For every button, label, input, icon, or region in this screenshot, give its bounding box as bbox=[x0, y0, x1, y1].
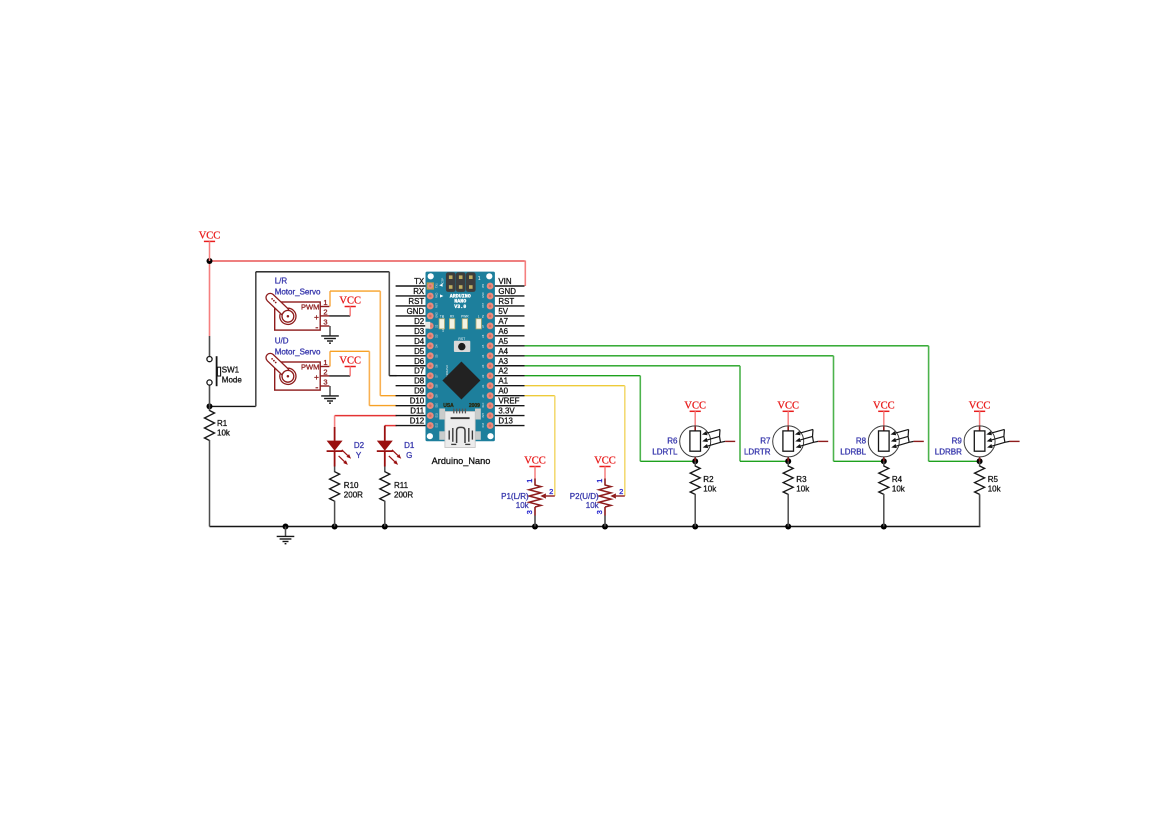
pin A6 (right) bbox=[495, 335, 525, 337]
potentiometer P1(L/R) 10k bbox=[501, 479, 555, 527]
wire D12 to LED D1 bbox=[385, 425, 397, 427]
svg-text:VCC: VCC bbox=[684, 401, 706, 412]
pin GND (left) bbox=[396, 315, 426, 317]
svg-text:A1: A1 bbox=[498, 377, 508, 386]
wire orange servo1 into D9 pin bbox=[380, 395, 396, 397]
svg-text:200R: 200R bbox=[344, 491, 363, 500]
junction LDRBR/R5 node bbox=[977, 458, 983, 464]
pin RST (right) bbox=[495, 305, 525, 307]
wire yellow A0 run right bbox=[525, 395, 555, 397]
junction LDRTR/R3 node bbox=[785, 458, 791, 464]
pin 3.3V (right) bbox=[495, 415, 525, 417]
pin D11 (left) bbox=[396, 415, 426, 417]
pin D9 (left) bbox=[396, 395, 426, 397]
pin D3 (left) bbox=[396, 335, 426, 337]
svg-text:D3: D3 bbox=[414, 327, 425, 336]
junction rail at ground bbox=[283, 524, 289, 530]
pin D2 (left) bbox=[396, 325, 426, 327]
svg-text:1: 1 bbox=[525, 479, 534, 483]
junction rail at P2 bbox=[602, 524, 608, 530]
servo motor U/D Motor_Servo bbox=[264, 336, 329, 393]
svg-text:R2: R2 bbox=[703, 475, 714, 484]
photoresistor R8 LDRBL bbox=[840, 426, 923, 461]
wire R5 to rail riser bbox=[979, 494, 981, 526]
svg-text:P2(U/D): P2(U/D) bbox=[570, 492, 599, 501]
svg-text:1: 1 bbox=[595, 479, 604, 483]
svg-text:3V3: 3V3 bbox=[482, 413, 485, 418]
wire drop to D7 pin bbox=[388, 272, 390, 376]
svg-text:Motor_Servo: Motor_Servo bbox=[275, 287, 321, 296]
svg-text:R4: R4 bbox=[892, 475, 903, 484]
svg-text:10k: 10k bbox=[516, 501, 530, 510]
svg-text:VCC: VCC bbox=[339, 296, 361, 307]
pin D7 (left) bbox=[396, 375, 426, 377]
wire green A2 to LDRTL junction bbox=[640, 460, 695, 462]
svg-text:D11: D11 bbox=[410, 407, 424, 416]
svg-text:U/D: U/D bbox=[275, 336, 289, 345]
svg-text:D7: D7 bbox=[414, 367, 424, 376]
potentiometer P2(U/D) 10k bbox=[570, 479, 625, 527]
svg-text:R10: R10 bbox=[344, 481, 359, 490]
wire yellow A0 drop to P1 wiper bbox=[554, 396, 556, 496]
wire orange servo1 run right bbox=[330, 290, 380, 292]
wire servo1 pin2 to VCC bbox=[329, 315, 350, 317]
svg-text:RST: RST bbox=[436, 302, 439, 307]
wire yellow A1 run right bbox=[525, 385, 625, 387]
power flag VCC (P1) bbox=[524, 456, 546, 479]
ground (rail) bbox=[277, 527, 295, 544]
junction LDRTL/R2 node bbox=[692, 458, 698, 464]
pin A0 (right) bbox=[495, 395, 525, 397]
svg-text:R3: R3 bbox=[796, 475, 807, 484]
svg-text:ICSP: ICSP bbox=[440, 278, 444, 285]
power flag VCC (LDRTR) bbox=[777, 401, 799, 427]
svg-text:VCC: VCC bbox=[594, 456, 616, 467]
wire into D7 pin bbox=[389, 375, 396, 377]
photoresistor R9 LDRBR bbox=[935, 426, 1020, 461]
power flag VCC (servo L/R) bbox=[339, 296, 361, 316]
wire orange servo2 run right bbox=[330, 350, 369, 352]
svg-text:200R: 200R bbox=[394, 491, 413, 500]
wire orange servo2 drop to D10 bbox=[368, 351, 370, 405]
svg-text:10k: 10k bbox=[586, 501, 600, 510]
svg-text:TX: TX bbox=[414, 277, 425, 286]
svg-text:D1: D1 bbox=[404, 441, 415, 450]
svg-text:PWM: PWM bbox=[301, 363, 319, 372]
svg-text:R9: R9 bbox=[952, 436, 963, 445]
wire ground rail bbox=[210, 526, 981, 528]
svg-text:A4: A4 bbox=[498, 347, 508, 356]
svg-text:5V: 5V bbox=[498, 307, 508, 316]
wire green A3 run right bbox=[525, 365, 741, 367]
svg-text:D8: D8 bbox=[414, 377, 425, 386]
svg-text:D10: D10 bbox=[436, 402, 439, 407]
wire orange servo1 drop to D9 bbox=[379, 291, 381, 396]
wire orange servo2 into D10 pin bbox=[369, 405, 396, 407]
svg-text:RST: RST bbox=[408, 297, 424, 306]
wire green A4 to LDRBL junction bbox=[834, 460, 884, 462]
svg-text:D9: D9 bbox=[414, 387, 425, 396]
junction VCC top-left bbox=[207, 258, 213, 264]
svg-text:D6: D6 bbox=[414, 357, 425, 366]
servo motor L/R Motor_Servo bbox=[264, 276, 329, 333]
svg-text:PWR: PWR bbox=[461, 314, 469, 318]
wire green A2 drop bbox=[639, 376, 641, 462]
wire orange servo1 PWM up bbox=[329, 291, 331, 306]
svg-text:VCC: VCC bbox=[199, 231, 221, 242]
photoresistor R7 LDRTR bbox=[744, 426, 828, 461]
svg-text:A0: A0 bbox=[498, 387, 508, 396]
svg-text:D13: D13 bbox=[498, 417, 513, 426]
junction rail at P1 bbox=[532, 524, 538, 530]
svg-text:2: 2 bbox=[619, 487, 623, 496]
power flag VCC (LDRBR) bbox=[969, 401, 991, 427]
wire D11 to LED D2 bbox=[335, 415, 397, 417]
svg-text:D2: D2 bbox=[354, 441, 365, 450]
ICSP header bbox=[446, 272, 456, 292]
pin TX (left) bbox=[396, 285, 426, 287]
svg-text:D4: D4 bbox=[414, 337, 425, 346]
svg-text:VCC: VCC bbox=[777, 401, 799, 412]
wire green A4 drop bbox=[833, 356, 835, 462]
svg-text:GND: GND bbox=[407, 307, 425, 316]
wire drop into LED D2 bbox=[334, 416, 336, 427]
wire top run to D7 column bbox=[256, 271, 389, 273]
svg-text:RST: RST bbox=[498, 297, 514, 306]
svg-text:GND: GND bbox=[482, 292, 485, 298]
pin D10 (left) bbox=[396, 405, 426, 407]
svg-text:D13: D13 bbox=[482, 422, 485, 427]
svg-text:VCC: VCC bbox=[873, 401, 895, 412]
svg-text:RX: RX bbox=[413, 287, 425, 296]
power flag VCC (top-left) bbox=[199, 231, 221, 261]
pin RX (left) bbox=[396, 295, 426, 297]
pin D12 (left) bbox=[396, 425, 426, 427]
wire green A4 run right bbox=[525, 355, 834, 357]
svg-text:R1: R1 bbox=[217, 419, 228, 428]
svg-text:D12: D12 bbox=[410, 417, 424, 426]
svg-text:10k: 10k bbox=[217, 428, 231, 437]
svg-text:R7: R7 bbox=[760, 436, 771, 445]
svg-text:2: 2 bbox=[323, 307, 327, 316]
svg-text:GND: GND bbox=[436, 312, 439, 318]
wire green A5 drop bbox=[928, 346, 930, 462]
svg-text:2: 2 bbox=[549, 487, 553, 496]
svg-text:3: 3 bbox=[323, 377, 327, 386]
resistor R10 200R bbox=[330, 467, 364, 527]
svg-text:A7: A7 bbox=[498, 317, 508, 326]
svg-text:D5: D5 bbox=[414, 347, 425, 356]
svg-text:GND: GND bbox=[498, 287, 516, 296]
svg-text:REF: REF bbox=[482, 402, 485, 407]
switch SW1 Mode bbox=[207, 336, 242, 406]
svg-text:3: 3 bbox=[595, 510, 604, 514]
LED D2 (Y) bbox=[327, 427, 365, 467]
svg-text:3: 3 bbox=[525, 510, 534, 514]
pin VREF (right) bbox=[495, 405, 525, 407]
svg-text:Motor_Servo: Motor_Servo bbox=[275, 347, 321, 356]
wire orange servo2 PWM up bbox=[329, 351, 331, 366]
pin A4 (right) bbox=[495, 355, 525, 357]
junction LDRBL/R4 node bbox=[881, 458, 887, 464]
svg-text:L/R: L/R bbox=[275, 276, 288, 285]
svg-text:LDRBR: LDRBR bbox=[935, 448, 962, 457]
svg-text:3: 3 bbox=[323, 317, 327, 326]
svg-text:10k: 10k bbox=[796, 484, 810, 493]
svg-text:LDRTR: LDRTR bbox=[744, 448, 771, 457]
USB connector bbox=[439, 409, 445, 420]
svg-text:2009: 2009 bbox=[469, 403, 480, 409]
svg-text:A6: A6 bbox=[498, 327, 508, 336]
junction rail at R3 bbox=[785, 524, 791, 530]
pin D4 (left) bbox=[396, 345, 426, 347]
pin A1 (right) bbox=[495, 385, 525, 387]
pin D8 (left) bbox=[396, 385, 426, 387]
pin A2 (right) bbox=[495, 375, 525, 377]
svg-text:VCC: VCC bbox=[524, 456, 546, 467]
wire green A3 drop bbox=[739, 366, 741, 462]
svg-text:PWM: PWM bbox=[301, 303, 319, 312]
svg-text:10k: 10k bbox=[703, 484, 717, 493]
pin 5V (right) bbox=[495, 315, 525, 317]
svg-text:R5: R5 bbox=[988, 475, 999, 484]
svg-text:+: + bbox=[314, 312, 319, 322]
resistor R2 10k bbox=[690, 461, 717, 526]
photoresistor R6 LDRTL bbox=[652, 426, 735, 461]
svg-text:R11: R11 bbox=[394, 481, 409, 490]
svg-text:VIN: VIN bbox=[482, 284, 485, 288]
svg-text:D2: D2 bbox=[414, 317, 424, 326]
silkscreen arrows bbox=[439, 284, 442, 287]
wire VCC rail drop to VIN pin bbox=[524, 261, 526, 287]
svg-text:1: 1 bbox=[323, 358, 327, 367]
svg-text:D10: D10 bbox=[410, 397, 425, 406]
power flag VCC (servo U/D) bbox=[339, 356, 361, 376]
svg-text:TX1: TX1 bbox=[436, 283, 439, 288]
svg-text:USA: USA bbox=[443, 403, 454, 409]
junction rail at R4 bbox=[881, 524, 887, 530]
svg-text:+: + bbox=[314, 372, 319, 382]
ground (servo U/D) bbox=[321, 386, 339, 403]
MCU chip (diamond) bbox=[442, 362, 480, 400]
SMD component left edge bbox=[425, 322, 430, 329]
power flag VCC (LDRBL) bbox=[873, 401, 895, 427]
svg-text:A3: A3 bbox=[498, 357, 508, 366]
wire servo2 pin2 to VCC bbox=[329, 375, 350, 377]
svg-text:5V: 5V bbox=[482, 315, 485, 318]
svg-text:LDRTL: LDRTL bbox=[652, 448, 678, 457]
junction rail at R11 bbox=[382, 524, 388, 530]
junction SW1/R1 node bbox=[207, 403, 213, 409]
wire SW1 bottom junction to right riser bbox=[210, 405, 256, 407]
pin pads bbox=[427, 282, 434, 289]
svg-text:VIN: VIN bbox=[498, 277, 511, 286]
Arduino Nano U1 module bbox=[396, 272, 525, 466]
wire VCC stub from top-left flag to junction bbox=[209, 261, 211, 336]
pin RST (left) bbox=[396, 305, 426, 307]
svg-text:2: 2 bbox=[323, 367, 327, 376]
pin D6 (left) bbox=[396, 365, 426, 367]
svg-text:3.3V: 3.3V bbox=[498, 407, 515, 416]
resistor R1 10k bbox=[205, 406, 231, 526]
wire VCC rail top (VCC to VIN) bbox=[210, 260, 526, 262]
wire green A5 run right bbox=[525, 345, 929, 347]
svg-text:10k: 10k bbox=[892, 484, 906, 493]
wire green A5 to LDRBR junction bbox=[929, 460, 980, 462]
mounting holes bbox=[428, 273, 434, 279]
wire yellow A1 drop to P2 wiper bbox=[624, 386, 626, 496]
svg-text:Arduino_Nano: Arduino_Nano bbox=[432, 456, 491, 466]
svg-text:SW1: SW1 bbox=[222, 366, 240, 375]
svg-text:VCC: VCC bbox=[969, 401, 991, 412]
wire green A2 run right bbox=[525, 375, 641, 377]
pin GND (right) bbox=[495, 295, 525, 297]
pin A7 (right) bbox=[495, 325, 525, 327]
svg-text:RST: RST bbox=[482, 302, 485, 307]
pin A3 (right) bbox=[495, 365, 525, 367]
pin D5 (left) bbox=[396, 355, 426, 357]
LED D1 (G) bbox=[377, 426, 415, 467]
svg-text:-: - bbox=[315, 323, 318, 334]
junction rail at R2 bbox=[692, 524, 698, 530]
pin VIN (right) bbox=[495, 285, 525, 287]
svg-text:VCC: VCC bbox=[339, 356, 361, 367]
svg-text:1: 1 bbox=[323, 298, 327, 307]
resistor R11 200R bbox=[380, 467, 414, 527]
svg-text:1: 1 bbox=[478, 276, 481, 282]
svg-text:D12: D12 bbox=[436, 422, 439, 427]
junction rail at R10 bbox=[332, 524, 338, 530]
svg-text:Mode: Mode bbox=[222, 376, 243, 385]
svg-text:V3.0: V3.0 bbox=[454, 304, 466, 310]
svg-text:-: - bbox=[315, 383, 318, 394]
resistor R5 10k bbox=[975, 461, 1002, 494]
svg-text:Y: Y bbox=[356, 451, 362, 460]
svg-text:A2: A2 bbox=[498, 367, 508, 376]
svg-text:A5: A5 bbox=[498, 337, 508, 346]
svg-text:VREF: VREF bbox=[498, 397, 519, 406]
wire riser up from SW1 net bbox=[255, 272, 257, 407]
svg-text:G: G bbox=[406, 451, 412, 460]
svg-text:D11: D11 bbox=[436, 413, 439, 418]
svg-text:RXD: RXD bbox=[436, 292, 439, 297]
svg-text:L: L bbox=[478, 314, 480, 318]
svg-text:P1(L/R): P1(L/R) bbox=[501, 492, 529, 501]
power flag VCC (P2) bbox=[594, 456, 616, 479]
svg-text:LDRBL: LDRBL bbox=[840, 448, 866, 457]
Arduino Nano board body bbox=[426, 272, 495, 442]
pin D13 (right) bbox=[495, 425, 525, 427]
pin A5 (right) bbox=[495, 345, 525, 347]
resistor R3 10k bbox=[783, 461, 810, 526]
resistor R4 10k bbox=[879, 461, 906, 526]
power flag VCC (LDRTL) bbox=[684, 401, 706, 427]
svg-text:R6: R6 bbox=[667, 436, 678, 445]
svg-text:R8: R8 bbox=[856, 436, 867, 445]
svg-text:10k: 10k bbox=[988, 484, 1002, 493]
svg-text:RST: RST bbox=[458, 337, 465, 341]
ground (servo L/R) bbox=[321, 326, 339, 343]
wire green A3 to LDRTR junction bbox=[740, 460, 788, 462]
